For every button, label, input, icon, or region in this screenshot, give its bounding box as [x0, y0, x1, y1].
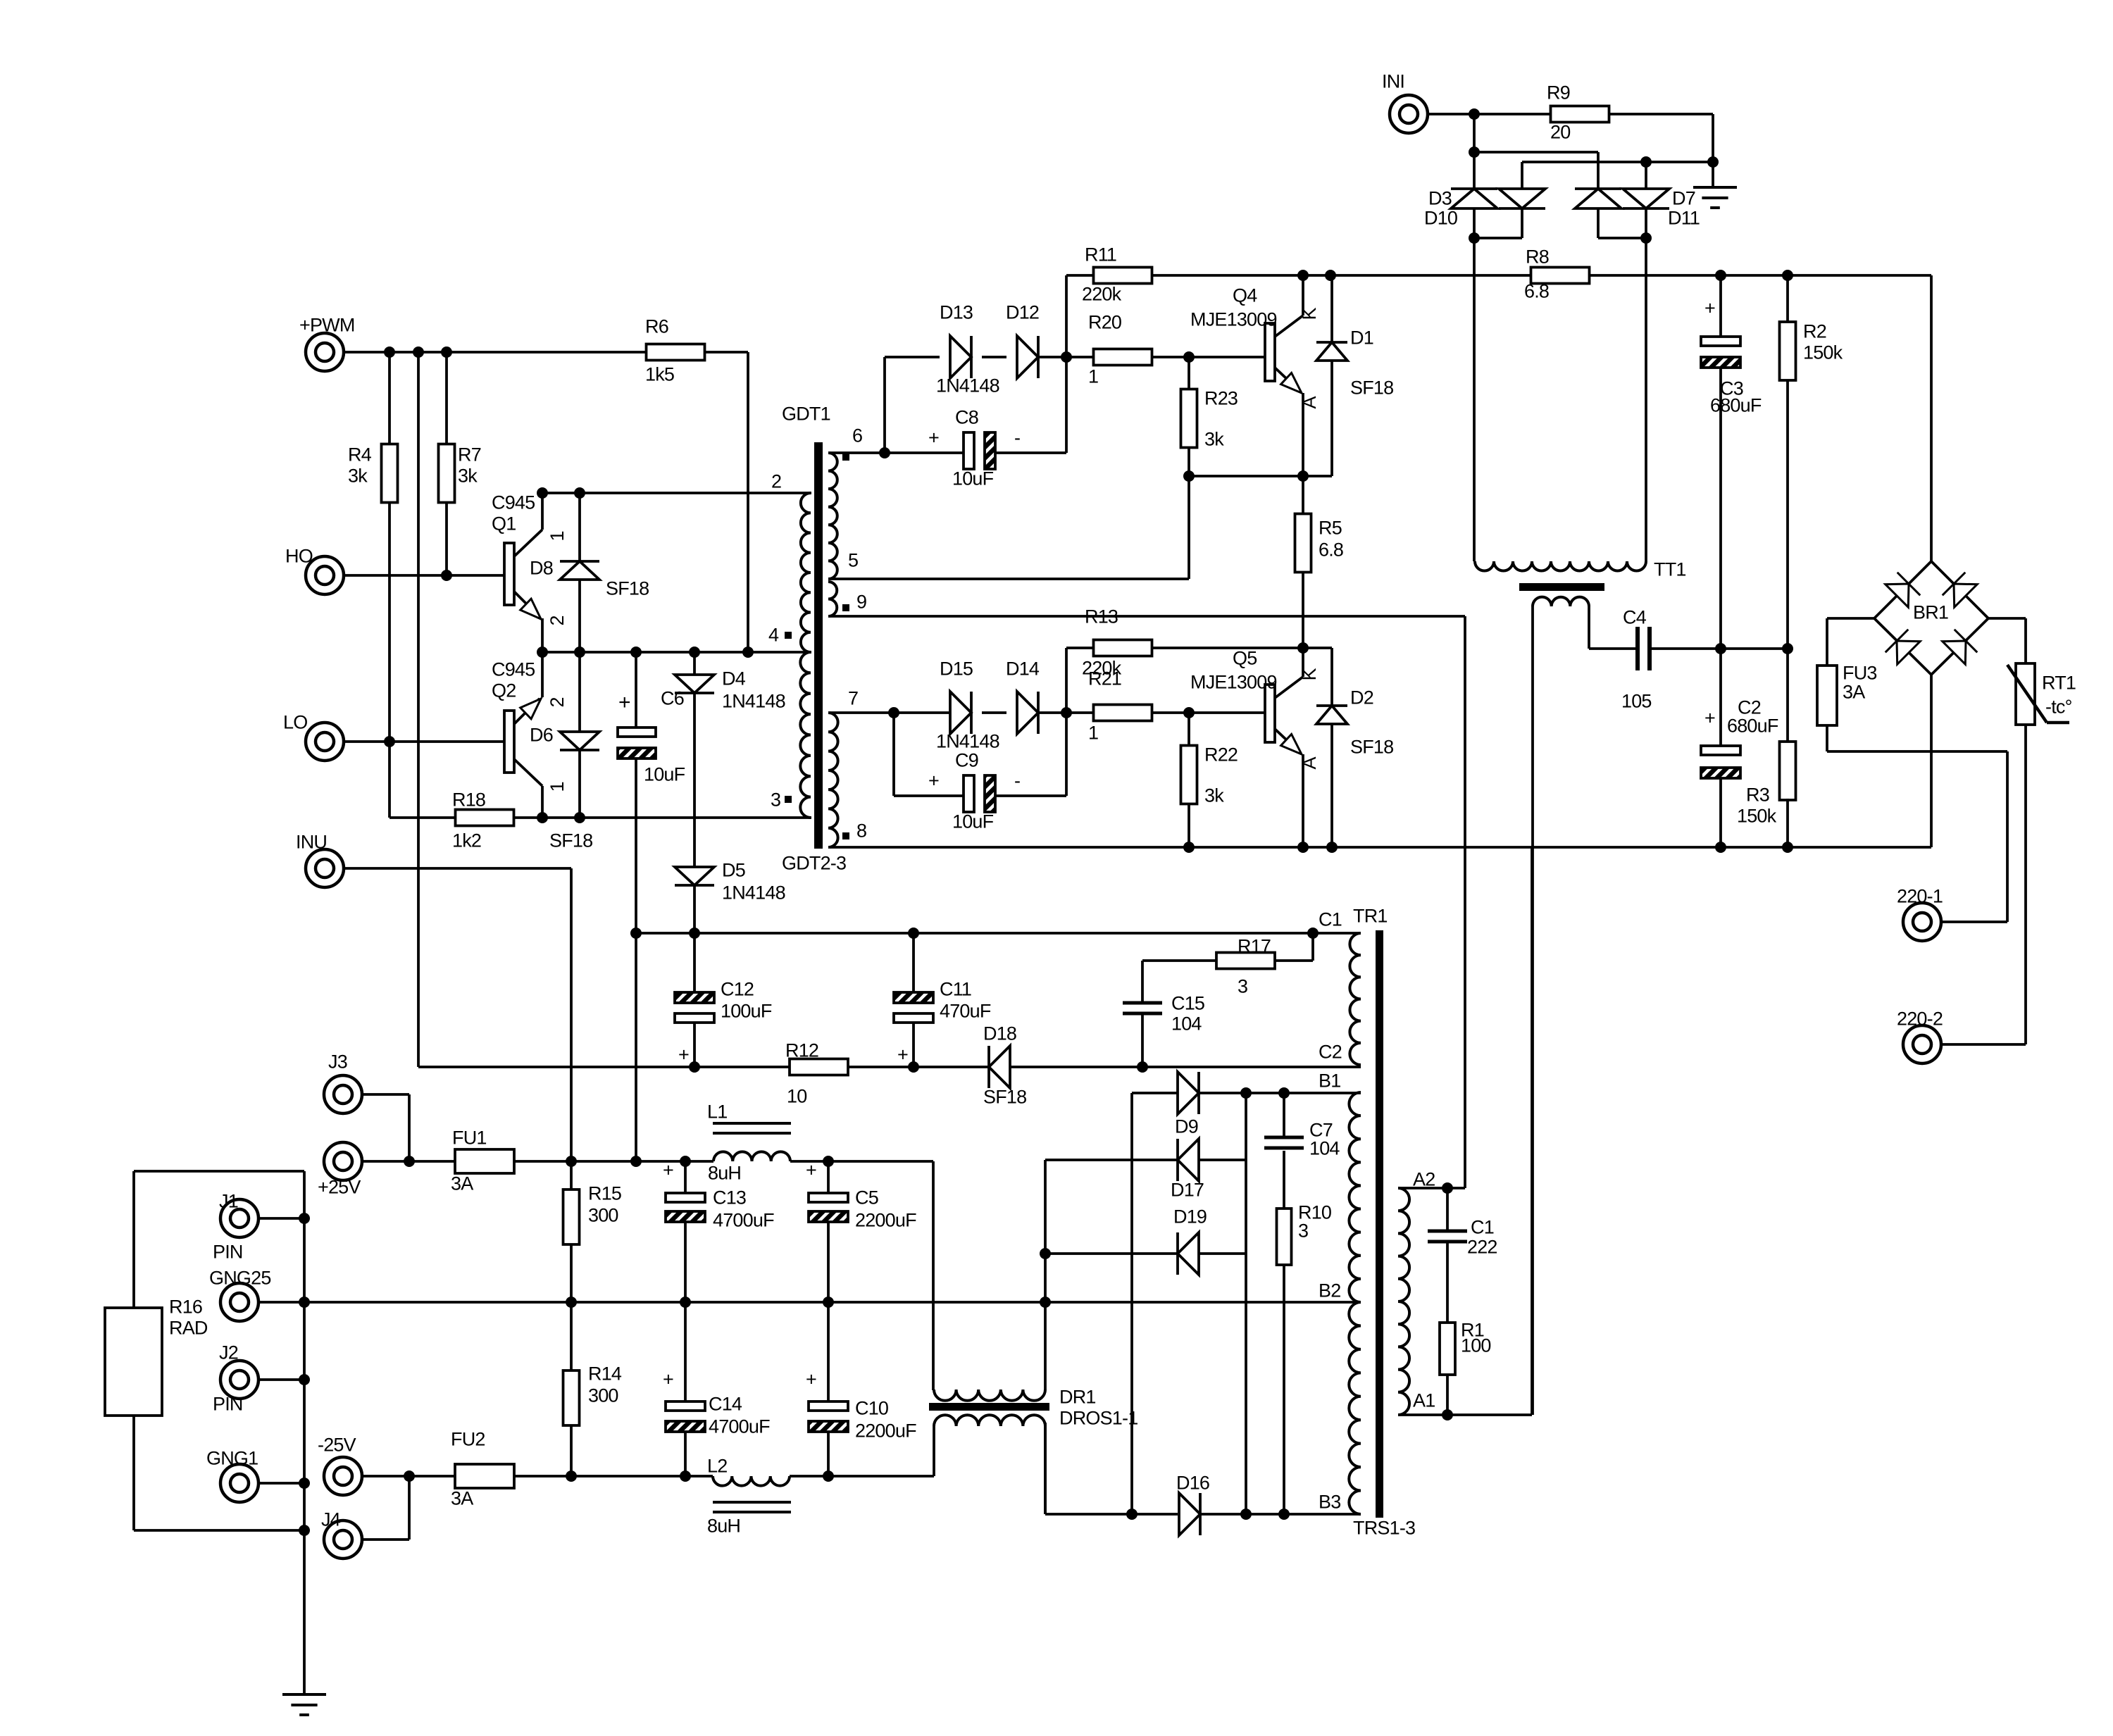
svg-text:6.8: 6.8 — [1319, 539, 1343, 561]
svg-text:5: 5 — [848, 550, 858, 571]
svg-text:R4: R4 — [348, 444, 372, 466]
svg-text:D3: D3 — [1428, 188, 1452, 209]
svg-text:R7: R7 — [458, 444, 481, 466]
svg-text:8uH: 8uH — [707, 1516, 740, 1537]
svg-text:+: + — [663, 1369, 673, 1390]
svg-text:2200uF: 2200uF — [855, 1210, 916, 1231]
svg-text:R20: R20 — [1088, 312, 1121, 333]
svg-text:TT1: TT1 — [1654, 559, 1686, 580]
svg-text:R9: R9 — [1547, 82, 1570, 104]
svg-text:K: K — [1299, 308, 1320, 320]
svg-text:FU1: FU1 — [452, 1128, 487, 1149]
svg-text:3: 3 — [771, 789, 780, 811]
svg-text:D9: D9 — [1175, 1116, 1198, 1137]
svg-text:R22: R22 — [1204, 744, 1238, 766]
svg-text:D14: D14 — [1006, 658, 1040, 680]
svg-text:SF18: SF18 — [983, 1087, 1026, 1108]
svg-text:PIN: PIN — [213, 1242, 243, 1263]
svg-text:TR1: TR1 — [1353, 906, 1388, 927]
svg-text:3: 3 — [1238, 976, 1247, 997]
svg-text:SF18: SF18 — [1350, 737, 1393, 758]
svg-text:104: 104 — [1309, 1138, 1340, 1159]
svg-text:C10: C10 — [855, 1398, 888, 1419]
svg-text:300: 300 — [588, 1385, 618, 1406]
svg-text:6.8: 6.8 — [1524, 281, 1549, 302]
svg-text:A: A — [1299, 396, 1320, 409]
svg-text:-tc°: -tc° — [2045, 697, 2072, 718]
svg-text:C15: C15 — [1171, 993, 1204, 1014]
svg-text:R23: R23 — [1204, 388, 1238, 409]
svg-text:D8: D8 — [530, 558, 553, 579]
svg-text:2: 2 — [547, 697, 568, 707]
svg-text:R13: R13 — [1085, 606, 1118, 627]
svg-text:Q4: Q4 — [1233, 285, 1257, 306]
svg-text:GDT1: GDT1 — [782, 404, 830, 425]
svg-text:C1: C1 — [1471, 1217, 1494, 1238]
svg-text:C2: C2 — [1319, 1042, 1342, 1063]
svg-text:D2: D2 — [1350, 687, 1373, 708]
svg-text:RT1: RT1 — [2042, 673, 2076, 694]
svg-text:L1: L1 — [707, 1101, 727, 1123]
svg-text:100uF: 100uF — [721, 1001, 772, 1022]
svg-text:J4: J4 — [321, 1509, 341, 1530]
svg-text:C14: C14 — [709, 1394, 742, 1415]
svg-text:8uH: 8uH — [708, 1163, 741, 1184]
svg-text:300: 300 — [588, 1205, 618, 1226]
svg-text:100: 100 — [1461, 1335, 1491, 1356]
svg-text:TRS1-3: TRS1-3 — [1353, 1518, 1415, 1539]
svg-text:1N4148: 1N4148 — [722, 691, 785, 712]
svg-text:150k: 150k — [1737, 806, 1777, 827]
svg-text:C4: C4 — [1623, 607, 1647, 628]
svg-text:1: 1 — [1088, 723, 1098, 744]
svg-text:R5: R5 — [1319, 518, 1342, 539]
svg-text:220-2: 220-2 — [1897, 1008, 1943, 1030]
svg-text:HO: HO — [285, 546, 313, 567]
svg-text:8: 8 — [856, 820, 866, 842]
svg-text:J3: J3 — [328, 1051, 347, 1073]
svg-text:D4: D4 — [722, 668, 746, 689]
svg-text:Q5: Q5 — [1233, 648, 1257, 669]
svg-text:+: + — [678, 1044, 689, 1066]
svg-text:INI: INI — [1382, 71, 1404, 92]
svg-text:10uF: 10uF — [952, 468, 994, 489]
svg-text:J2: J2 — [219, 1342, 238, 1363]
svg-text:2: 2 — [547, 616, 568, 625]
svg-text:D11: D11 — [1668, 208, 1700, 229]
svg-text:222: 222 — [1467, 1237, 1497, 1258]
svg-text:1N4148: 1N4148 — [936, 731, 999, 752]
svg-text:3k: 3k — [1204, 429, 1224, 450]
svg-text:GNG1: GNG1 — [206, 1448, 258, 1469]
svg-text:+PWM: +PWM — [299, 315, 355, 336]
svg-text:R3: R3 — [1746, 785, 1769, 806]
svg-text:GNG25: GNG25 — [209, 1268, 271, 1289]
svg-text:BR1: BR1 — [1913, 602, 1948, 623]
svg-text:3k: 3k — [348, 466, 368, 487]
svg-text:D18: D18 — [983, 1023, 1016, 1044]
svg-text:10: 10 — [787, 1086, 806, 1107]
svg-text:C5: C5 — [855, 1187, 878, 1209]
svg-text:1: 1 — [547, 531, 568, 541]
svg-text:105: 105 — [1621, 691, 1652, 712]
svg-text:20: 20 — [1550, 122, 1570, 143]
svg-text:+: + — [897, 1044, 908, 1066]
svg-text:K: K — [1299, 668, 1320, 681]
svg-text:4700uF: 4700uF — [709, 1416, 770, 1437]
svg-text:A: A — [1299, 757, 1320, 770]
svg-text:A2: A2 — [1413, 1169, 1435, 1190]
svg-text:-25V: -25V — [318, 1435, 356, 1456]
svg-text:9: 9 — [856, 592, 866, 613]
svg-text:+: + — [618, 691, 630, 714]
svg-text:RAD: RAD — [169, 1318, 208, 1339]
svg-text:R18: R18 — [452, 789, 485, 811]
svg-text:2200uF: 2200uF — [855, 1420, 916, 1442]
svg-text:B2: B2 — [1319, 1280, 1340, 1301]
svg-text:D19: D19 — [1173, 1206, 1207, 1228]
svg-text:3k: 3k — [458, 466, 478, 487]
svg-text:A1: A1 — [1413, 1390, 1435, 1411]
svg-text:C6: C6 — [661, 688, 684, 709]
svg-text:+25V: +25V — [318, 1177, 361, 1198]
svg-text:B1: B1 — [1319, 1070, 1340, 1092]
svg-text:GDT2-3: GDT2-3 — [782, 853, 846, 874]
svg-text:3A: 3A — [451, 1173, 473, 1194]
svg-text:D1: D1 — [1350, 327, 1373, 349]
svg-text:+: + — [928, 427, 939, 449]
svg-text:3: 3 — [1298, 1220, 1308, 1242]
svg-text:C945: C945 — [492, 659, 535, 680]
svg-text:220k: 220k — [1082, 284, 1122, 305]
svg-text:INU: INU — [296, 832, 327, 853]
svg-text:104: 104 — [1171, 1013, 1202, 1035]
svg-text:LO: LO — [283, 712, 307, 733]
svg-text:DROS1-1: DROS1-1 — [1059, 1408, 1137, 1429]
svg-text:470uF: 470uF — [940, 1001, 991, 1022]
svg-text:1: 1 — [547, 782, 568, 792]
svg-text:R2: R2 — [1803, 321, 1826, 342]
svg-text:-: - — [1014, 427, 1020, 449]
svg-text:+: + — [806, 1160, 816, 1181]
svg-text:D15: D15 — [940, 658, 973, 680]
svg-text:D7: D7 — [1672, 188, 1695, 209]
svg-text:R12: R12 — [785, 1040, 818, 1061]
svg-text:D12: D12 — [1006, 302, 1039, 323]
svg-text:+: + — [1704, 298, 1715, 319]
svg-text:7: 7 — [848, 688, 858, 709]
svg-text:R11: R11 — [1085, 244, 1116, 266]
svg-text:1: 1 — [1088, 366, 1098, 387]
svg-text:PIN: PIN — [213, 1394, 243, 1415]
svg-text:C13: C13 — [713, 1187, 746, 1209]
svg-text:Q2: Q2 — [492, 680, 516, 701]
svg-text:D17: D17 — [1171, 1180, 1204, 1201]
svg-text:SF18: SF18 — [606, 578, 649, 599]
svg-text:4: 4 — [768, 625, 779, 646]
svg-text:D13: D13 — [940, 302, 973, 323]
svg-text:Q1: Q1 — [492, 513, 516, 535]
svg-text:3k: 3k — [1204, 785, 1224, 806]
svg-text:R21: R21 — [1088, 668, 1121, 689]
svg-text:D10: D10 — [1424, 208, 1457, 229]
svg-text:3A: 3A — [451, 1488, 473, 1509]
svg-text:220-1: 220-1 — [1897, 886, 1943, 907]
svg-text:680uF: 680uF — [1727, 716, 1778, 737]
svg-text:C11: C11 — [940, 979, 971, 1000]
svg-text:R16: R16 — [169, 1297, 202, 1318]
svg-text:R8: R8 — [1526, 246, 1549, 268]
svg-text:SF18: SF18 — [549, 830, 592, 851]
svg-text:+: + — [1704, 708, 1715, 729]
svg-text:R6: R6 — [645, 316, 668, 337]
svg-text:6: 6 — [852, 425, 862, 447]
svg-text:-: - — [1014, 770, 1020, 792]
svg-text:4700uF: 4700uF — [713, 1210, 774, 1231]
svg-text:3A: 3A — [1843, 682, 1865, 703]
svg-text:2: 2 — [771, 471, 781, 492]
svg-text:C945: C945 — [492, 492, 535, 513]
svg-text:DR1: DR1 — [1059, 1387, 1096, 1408]
svg-text:C1: C1 — [1319, 909, 1342, 930]
svg-text:B3: B3 — [1319, 1492, 1340, 1513]
svg-text:1k2: 1k2 — [452, 830, 481, 851]
svg-text:D5: D5 — [722, 860, 745, 881]
svg-text:D16: D16 — [1176, 1473, 1209, 1494]
svg-text:C12: C12 — [721, 979, 754, 1000]
svg-text:1k5: 1k5 — [645, 364, 674, 385]
svg-text:SF18: SF18 — [1350, 377, 1393, 399]
svg-text:FU3: FU3 — [1843, 663, 1877, 684]
svg-text:10uF: 10uF — [952, 811, 994, 832]
svg-text:C8: C8 — [955, 407, 978, 428]
svg-text:MJE13009: MJE13009 — [1190, 672, 1277, 693]
svg-text:+: + — [928, 770, 939, 792]
svg-text:J1: J1 — [219, 1191, 238, 1212]
svg-text:150k: 150k — [1803, 342, 1843, 363]
svg-text:R14: R14 — [588, 1363, 622, 1385]
svg-text:D6: D6 — [530, 725, 553, 746]
svg-text:MJE13009: MJE13009 — [1190, 309, 1277, 330]
svg-text:10uF: 10uF — [644, 764, 685, 785]
svg-text:1N4148: 1N4148 — [936, 375, 999, 396]
svg-text:L2: L2 — [707, 1456, 727, 1477]
svg-text:680uF: 680uF — [1710, 395, 1762, 416]
svg-text:FU2: FU2 — [451, 1429, 485, 1450]
svg-text:R17: R17 — [1238, 936, 1271, 957]
svg-text:1N4148: 1N4148 — [722, 882, 785, 904]
svg-text:+: + — [806, 1369, 816, 1390]
svg-text:R15: R15 — [588, 1183, 621, 1204]
svg-text:C9: C9 — [955, 750, 978, 771]
svg-text:+: + — [663, 1160, 673, 1181]
